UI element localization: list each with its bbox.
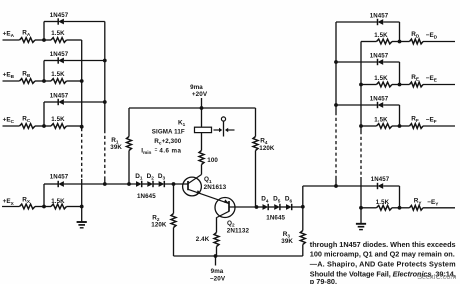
svg-text:RX: RX bbox=[22, 197, 31, 205]
node junction B bbox=[42, 79, 46, 83]
wire to Q1 base bbox=[164, 183, 188, 185]
node diode bus joins AND line bbox=[103, 182, 107, 186]
wire to ground bus bbox=[67, 39, 82, 41]
wire bbox=[142, 183, 148, 185]
wire diode bus (right, lower) bbox=[335, 179, 337, 186]
resistor 1.5K (E) bbox=[377, 82, 393, 87]
svg-text:D2: D2 bbox=[147, 173, 155, 181]
wire riser X to AND line bbox=[43, 184, 45, 207]
wire R1 bottom bbox=[128, 151, 130, 185]
wire to diode bus bbox=[64, 21, 105, 23]
wire output -E_F bbox=[423, 125, 455, 127]
wire diode to output corner bbox=[383, 61, 399, 63]
wire bbox=[35, 39, 51, 41]
wire output -E_D bbox=[423, 41, 455, 43]
wire bus to 1.5K bbox=[361, 125, 377, 127]
resistor R_X bbox=[20, 204, 36, 209]
diode D6 bbox=[286, 204, 292, 210]
diode 1N457 (E row) bbox=[378, 59, 384, 65]
wire diode to output corner bbox=[383, 21, 399, 23]
svg-text:2N1613: 2N1613 bbox=[204, 184, 227, 191]
wire 1.5K bus (right, solid) bbox=[360, 42, 362, 132]
node output bus junction bbox=[334, 184, 338, 188]
svg-text:RD: RD bbox=[411, 31, 420, 39]
svg-text:1N457: 1N457 bbox=[50, 173, 69, 180]
resistor R_D bbox=[410, 39, 424, 44]
wire R3 bottom bbox=[302, 245, 304, 257]
svg-text:through 1N457 diodes. When thi: through 1N457 diodes. When this exceeds bbox=[310, 240, 456, 249]
diode D2 bbox=[147, 181, 153, 187]
node bus dot C diode bbox=[103, 100, 107, 104]
diode 1N457 (B row) bbox=[58, 57, 64, 63]
svg-text:1N457: 1N457 bbox=[371, 176, 390, 183]
wire bbox=[257, 206, 263, 208]
resistor 1.5K (A) bbox=[51, 38, 67, 43]
wire coil bottom bbox=[201, 133, 203, 151]
svg-text:D4: D4 bbox=[261, 196, 269, 204]
svg-text:1N457: 1N457 bbox=[370, 53, 389, 60]
wire R4 bottom bbox=[255, 151, 257, 208]
node junction A bbox=[42, 38, 46, 42]
svg-text:1N457: 1N457 bbox=[50, 51, 69, 58]
node output junction Y bbox=[398, 206, 402, 210]
svg-text:Imin: Imin bbox=[141, 147, 151, 155]
wire bbox=[400, 207, 410, 209]
svg-text:RB: RB bbox=[22, 70, 31, 78]
wire bus to 1.5K bbox=[361, 41, 377, 43]
wire R1 top bbox=[128, 108, 130, 137]
node Q1 base junction bbox=[172, 182, 176, 186]
svg-text:9ma: 9ma bbox=[190, 84, 203, 91]
wire to ground bus bbox=[67, 206, 82, 208]
svg-text:D6: D6 bbox=[285, 196, 293, 204]
wire 1.5K to node bbox=[392, 125, 400, 127]
resistor 1.5K (X) bbox=[51, 204, 67, 209]
resistor 1.5K (C) bbox=[51, 124, 67, 129]
svg-text:1N457: 1N457 bbox=[370, 13, 389, 20]
resistor R_A bbox=[20, 38, 36, 43]
diode D4 bbox=[263, 204, 269, 210]
wire bbox=[268, 206, 274, 208]
resistor 1.5K (D) bbox=[377, 39, 393, 44]
wire bbox=[35, 206, 51, 208]
relay contact terminal bbox=[221, 117, 225, 121]
wire corner down bbox=[399, 62, 401, 85]
wire 1.5K bus (right, dashed) bbox=[360, 131, 362, 177]
wire R2 top bbox=[173, 184, 175, 214]
resistor R_E bbox=[410, 82, 424, 87]
svg-text:2.4K: 2.4K bbox=[196, 236, 210, 243]
svg-text:1N457: 1N457 bbox=[370, 96, 389, 103]
transistor Q1 2N1613 bbox=[183, 175, 229, 204]
wire corner down (Y) bbox=[399, 186, 401, 208]
svg-text:−EF: −EF bbox=[426, 117, 437, 125]
svg-text:+EA: +EA bbox=[3, 30, 15, 38]
resistor 1.5K (B) bbox=[51, 79, 67, 84]
svg-text:D5: D5 bbox=[273, 196, 281, 204]
diode D5 bbox=[274, 204, 280, 210]
svg-text:1.5K: 1.5K bbox=[51, 116, 65, 123]
svg-text:SeekIC.com: SeekIC.com bbox=[417, 272, 456, 281]
svg-text:100 microamp, Q1 and Q2 may re: 100 microamp, Q1 and Q2 may remain on. bbox=[310, 250, 455, 259]
node bus dot E 1.5K bbox=[359, 83, 363, 87]
wire 1.5K to node (Y) bbox=[392, 207, 400, 209]
node R1 joins AND line bbox=[127, 182, 131, 186]
diode 1N457 (Y row) bbox=[378, 183, 384, 189]
wire diode bus (right, dashed) bbox=[335, 112, 337, 179]
svg-text:120K: 120K bbox=[151, 221, 167, 228]
relay contact arrow right bbox=[214, 128, 223, 132]
transistor Q2 2N1132 bbox=[215, 198, 257, 218]
wire diode row D bbox=[336, 21, 378, 23]
wire bbox=[35, 80, 51, 82]
wire diode bus (left, solid) bbox=[104, 22, 106, 131]
diode 1N457 (C row) bbox=[58, 99, 64, 105]
wire diode row B bbox=[44, 60, 58, 62]
wire -20V rail bbox=[174, 255, 303, 257]
wire diode bus (right, solid) bbox=[335, 22, 337, 112]
wire bbox=[400, 41, 410, 43]
wire to diode bus bbox=[64, 101, 105, 103]
wire 1.5K to node bbox=[392, 41, 400, 43]
resistor R_Y bbox=[410, 205, 424, 210]
ground (left) bbox=[77, 207, 87, 228]
svg-text:120K: 120K bbox=[259, 145, 275, 152]
svg-text:1N645: 1N645 bbox=[137, 193, 156, 200]
resistor R4 120K bbox=[253, 137, 258, 151]
resistor R_C bbox=[20, 124, 36, 129]
wire diode to corner (Y) bbox=[383, 185, 399, 187]
wire riser to diode A bbox=[43, 22, 45, 41]
wire bbox=[400, 84, 410, 86]
node +20V junction bbox=[200, 106, 204, 110]
resistor R2 120K bbox=[171, 214, 176, 228]
node ground junction Y bbox=[359, 206, 363, 210]
svg-text:SIGMA 11F: SIGMA 11F bbox=[152, 128, 185, 135]
node bus dot C 1.5K bbox=[80, 125, 84, 129]
wire diode row E bbox=[336, 61, 378, 63]
node bus dot E diode bbox=[334, 60, 338, 64]
resistor 2.4K bbox=[214, 233, 219, 247]
node bus dot B diode bbox=[103, 59, 107, 63]
diode 1N457 (D row) bbox=[378, 19, 384, 25]
svg-text:2N1132: 2N1132 bbox=[227, 228, 250, 235]
wire bbox=[35, 125, 51, 127]
wire bbox=[153, 183, 159, 185]
svg-text:RF: RF bbox=[411, 116, 419, 124]
wire bbox=[280, 206, 286, 208]
node output junction E bbox=[398, 83, 402, 87]
node junction C bbox=[42, 124, 46, 128]
svg-text:= 4.6 ma: = 4.6 ma bbox=[155, 147, 182, 155]
wire bbox=[400, 125, 410, 127]
svg-text:+20V: +20V bbox=[192, 91, 208, 98]
wire to diode bus bbox=[64, 60, 105, 62]
svg-text:+EB: +EB bbox=[3, 71, 15, 79]
wire ground bus (left, solid) bbox=[81, 40, 83, 128]
svg-text:−ED: −ED bbox=[426, 32, 438, 40]
diode D3 bbox=[159, 181, 165, 187]
relay contact bar bbox=[223, 121, 225, 136]
resistor 1.5K (Y) bbox=[377, 205, 393, 210]
svg-text:D3: D3 bbox=[158, 173, 166, 181]
node bus dot B 1.5K bbox=[80, 79, 84, 83]
svg-text:−20V: −20V bbox=[210, 275, 226, 282]
node junction X bbox=[42, 205, 46, 209]
wire 1.5K bus (right, lower) bbox=[360, 177, 362, 208]
svg-text:100: 100 bbox=[207, 157, 218, 164]
svg-text:+2,300: +2,300 bbox=[162, 138, 182, 145]
svg-text:39K: 39K bbox=[281, 238, 293, 245]
svg-text:1.5K: 1.5K bbox=[374, 32, 388, 39]
wire diode bus (left, dashed) bbox=[104, 130, 106, 178]
wire output -E_E bbox=[423, 84, 455, 86]
node ground bus dot X bbox=[80, 205, 84, 209]
relay contact arrow left bbox=[225, 128, 235, 132]
diode 1N457 (X row) bbox=[58, 181, 64, 187]
diode 1N457 (A row) bbox=[58, 18, 64, 24]
diode 1N457 (F row) bbox=[378, 102, 384, 108]
wire input E_B bbox=[3, 80, 20, 82]
wire corner down bbox=[399, 105, 401, 126]
resistor R3 39K bbox=[300, 231, 305, 245]
svg-text:1N645: 1N645 bbox=[266, 215, 285, 222]
svg-text:1.5K: 1.5K bbox=[51, 30, 65, 37]
svg-text:p 79-80.: p 79-80. bbox=[310, 277, 337, 284]
svg-text:1.5K: 1.5K bbox=[374, 75, 388, 82]
wire diode to output corner bbox=[383, 104, 399, 106]
wire R2 bottom bbox=[173, 228, 175, 257]
resistor R_F bbox=[410, 124, 424, 129]
wire input E_C bbox=[3, 125, 20, 127]
svg-text:Q2: Q2 bbox=[227, 220, 235, 228]
wire corner down bbox=[399, 22, 401, 42]
relay coil K1 bbox=[195, 127, 212, 132]
svg-text:D1: D1 bbox=[135, 173, 143, 181]
svg-text:1.5K: 1.5K bbox=[51, 71, 65, 78]
svg-text:Q1: Q1 bbox=[204, 176, 212, 184]
ground (right) bbox=[356, 208, 366, 230]
svg-text:1N457: 1N457 bbox=[50, 93, 69, 100]
node bus dot F 1.5K bbox=[359, 124, 363, 128]
wire to ground bus bbox=[67, 80, 82, 82]
node output junction F bbox=[398, 124, 402, 128]
wire input E_A bbox=[3, 39, 20, 41]
wire R4 top bbox=[255, 108, 257, 137]
svg-text:+EX: +EX bbox=[3, 198, 15, 206]
svg-text:39K: 39K bbox=[110, 144, 122, 151]
wire AND line bbox=[64, 183, 136, 185]
wire bus to 1.5K bbox=[361, 84, 377, 86]
resistor R1 39K bbox=[127, 137, 132, 151]
svg-text:−EY: −EY bbox=[427, 199, 439, 207]
wire riser to diode C bbox=[43, 102, 45, 126]
wire D6 to R3 node bbox=[292, 206, 303, 208]
svg-text:+EC: +EC bbox=[3, 116, 15, 124]
node -20V junction bbox=[214, 254, 218, 258]
node R3 junction bbox=[301, 205, 305, 209]
wire R3 riser bbox=[302, 186, 304, 231]
wire output line bbox=[303, 185, 378, 187]
svg-text:1.5K: 1.5K bbox=[374, 116, 388, 123]
wire input E_X bbox=[2, 206, 20, 208]
svg-text:−EE: −EE bbox=[426, 75, 437, 83]
svg-text:R4: R4 bbox=[260, 137, 268, 145]
node output junction D bbox=[398, 40, 402, 44]
svg-text:—A. Shapiro, AND Gate Protects: —A. Shapiro, AND Gate Protects System bbox=[310, 259, 456, 268]
svg-text:RC: RC bbox=[22, 115, 31, 123]
wire Q2 collector down bbox=[216, 217, 218, 232]
wire 2.4K to -20V rail bbox=[216, 247, 218, 257]
wire diode row F bbox=[336, 104, 378, 106]
wire +20V stub bbox=[201, 98, 203, 108]
wire ground bus (left, lower) bbox=[81, 179, 83, 207]
wire riser to diode B bbox=[43, 61, 45, 82]
wire -20V stub bbox=[215, 256, 217, 266]
wire 100 to Q1 collector bbox=[201, 165, 203, 175]
svg-text:1N457: 1N457 bbox=[50, 12, 69, 19]
diode D1 bbox=[136, 181, 142, 187]
node Q2 base junction bbox=[255, 205, 259, 209]
wire diode row A bbox=[44, 21, 58, 23]
svg-text:9ma: 9ma bbox=[211, 268, 224, 275]
wire AND line left segment bbox=[44, 183, 58, 185]
wire diode row C bbox=[44, 101, 58, 103]
wire output -E_Y bbox=[423, 207, 455, 209]
wire ground bus (left, dashed) bbox=[81, 128, 83, 179]
wire bus to 1.5K (Y) bbox=[361, 207, 377, 209]
resistor R_B bbox=[20, 79, 36, 84]
resistor 1.5K (F) bbox=[377, 124, 393, 129]
wire to ground bus bbox=[67, 125, 82, 127]
node bus dot F diode bbox=[334, 103, 338, 107]
wire 1.5K to node bbox=[392, 84, 400, 86]
svg-text:K1: K1 bbox=[178, 119, 186, 127]
wire +20V rail bbox=[129, 107, 256, 109]
wire diode bus (left, lower) bbox=[104, 178, 106, 185]
svg-text:RA: RA bbox=[22, 29, 31, 37]
resistor 100 bbox=[199, 151, 204, 165]
wire coil top bbox=[201, 108, 203, 127]
